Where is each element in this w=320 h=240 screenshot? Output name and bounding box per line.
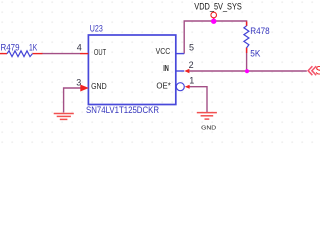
svg-text:OE*: OE* [156,81,171,91]
svg-text:GND: GND [91,81,107,91]
svg-text:5: 5 [189,43,194,53]
svg-text:GND: GND [201,125,216,131]
svg-text:VCC: VCC [156,46,171,56]
svg-text:3: 3 [76,78,81,88]
svg-text:IN: IN [163,64,169,73]
svg-text:S: S [315,63,320,77]
svg-text:R478: R478 [250,26,269,36]
svg-text:OUT: OUT [94,47,106,57]
svg-text:4: 4 [77,43,82,53]
svg-text:1: 1 [189,75,194,85]
svg-text:U23: U23 [90,24,103,34]
svg-text:SN74LV1T125DCKR: SN74LV1T125DCKR [86,105,159,116]
svg-text:1K: 1K [29,43,37,53]
svg-text:R479: R479 [1,43,20,53]
svg-text:5K: 5K [250,49,260,59]
svg-text:2: 2 [189,60,194,70]
svg-text:VDD_5V_SYS: VDD_5V_SYS [194,2,242,12]
